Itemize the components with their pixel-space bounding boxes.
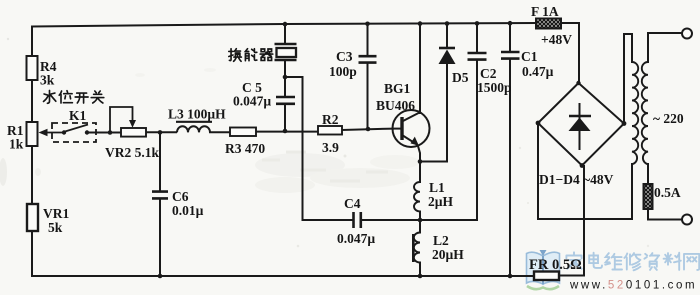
svg-text:1k: 1k	[9, 137, 24, 152]
bridge rectifier D1-D4	[538, 83, 624, 187]
svg-text:C6: C6	[172, 189, 189, 204]
node collector top	[418, 21, 423, 26]
svg-text:VR1: VR1	[43, 206, 69, 221]
capacitor C4	[337, 196, 375, 246]
wire C6 branch	[159, 132, 161, 276]
svg-text:1500p: 1500p	[477, 80, 512, 95]
terminal bottom right	[682, 215, 692, 225]
svg-text:L2: L2	[433, 233, 449, 248]
switch K1 water level switch	[52, 108, 96, 142]
svg-text:0.01µ: 0.01µ	[172, 203, 204, 218]
wire left rail	[31, 27, 33, 277]
watermark CJK text (hand-drawn)	[566, 252, 699, 270]
node C1 ground	[508, 274, 513, 279]
wire bottom rail right of FR to bridge minus	[559, 166, 584, 276]
svg-text:L1: L1	[429, 180, 445, 195]
wire bottom rail	[32, 275, 534, 277]
transformer T secondary winding	[632, 62, 638, 164]
wire emitter down	[418, 146, 420, 162]
resistor R3	[225, 128, 265, 157]
svg-text:BU406: BU406	[376, 98, 415, 113]
svg-text:~ 220: ~ 220	[653, 111, 684, 126]
resistor FR	[529, 257, 582, 280]
node VR2-C6	[158, 130, 163, 135]
svg-text:C1: C1	[521, 49, 538, 64]
svg-text:3k: 3k	[40, 73, 55, 88]
resistor R2	[318, 112, 342, 155]
svg-text:0.047µ: 0.047µ	[337, 231, 375, 246]
svg-text:F 1A: F 1A	[531, 4, 559, 19]
wire C4 right to L1 node	[362, 219, 420, 221]
diode D5	[439, 48, 469, 85]
svg-text:K1: K1	[69, 108, 87, 123]
wire transducer to C4	[285, 77, 352, 220]
svg-text:C3: C3	[336, 49, 353, 64]
svg-text:5k: 5k	[48, 220, 63, 235]
wire transducer branch	[284, 24, 286, 77]
node L2 ground	[418, 274, 423, 279]
scan noise smudges	[0, 38, 649, 248]
node C2 top	[475, 21, 480, 26]
capacitor C2	[468, 53, 512, 95]
svg-text:VR2 5.1k: VR2 5.1k	[105, 145, 159, 160]
svg-text:BG1: BG1	[384, 81, 411, 96]
potentiometer R1	[7, 122, 64, 152]
node C3 base	[366, 127, 371, 132]
wire bridge left vertex to transformer secondary bottom	[538, 123, 632, 219]
svg-text:0.047µ: 0.047µ	[233, 94, 271, 109]
svg-text:D1−D4 ~48V: D1−D4 ~48V	[539, 172, 614, 187]
node bridge right	[622, 121, 627, 126]
capacitor C3	[329, 49, 377, 79]
capacitor C1	[501, 49, 554, 79]
label water level switch (hand-drawn CJK)	[44, 90, 104, 103]
svg-text:C2: C2	[480, 66, 497, 81]
wire C3 branch	[367, 24, 369, 129]
wire D5 cathode to rail	[446, 24, 448, 47]
watermark book icon	[527, 250, 560, 289]
wire collector	[419, 24, 421, 113]
fuse F 1A	[531, 4, 572, 47]
potentiometer VR1	[27, 204, 69, 235]
node emitter	[418, 159, 423, 164]
svg-text:R2: R2	[322, 112, 339, 127]
svg-text:D5: D5	[452, 70, 469, 85]
terminal top right	[682, 29, 692, 39]
svg-text:100p: 100p	[329, 64, 357, 79]
capacitor C6	[152, 189, 204, 218]
wire L1 leads	[419, 162, 421, 221]
node bridge bottom	[580, 163, 585, 168]
svg-text:L3 100µH: L3 100µH	[168, 107, 226, 122]
wire L1 node to C2 bottom	[420, 61, 477, 220]
svg-text:R3 470: R3 470	[225, 141, 265, 156]
node D5 top	[445, 21, 450, 26]
wire top rail	[32, 23, 536, 27]
svg-text:FR 0.5Ω: FR 0.5Ω	[529, 257, 582, 273]
resistor R4	[27, 56, 57, 88]
svg-text:+48V: +48V	[541, 32, 572, 47]
svg-text:C4: C4	[344, 196, 361, 211]
wire C5 branch	[284, 77, 286, 131]
inductor L3	[168, 107, 226, 133]
label transducer (hand-drawn CJK)	[229, 49, 273, 62]
fuse 0.5A	[644, 184, 681, 209]
transducer (piezo)	[275, 44, 297, 60]
inductor L1	[414, 180, 454, 211]
svg-text:0.5A: 0.5A	[654, 185, 681, 200]
wire L2 leads	[419, 220, 421, 276]
svg-text:2µH: 2µH	[428, 194, 454, 209]
wire bridge right vertex U-turn to secondary top	[624, 34, 632, 124]
transistor BG1 BU406	[376, 81, 430, 147]
wire primary bottom to fuse FU2	[647, 164, 649, 184]
capacitor C5	[233, 80, 295, 109]
wire C1 branch	[509, 24, 511, 276]
svg-text:www.520101.com: www.520101.com	[569, 280, 697, 292]
node C1 top	[508, 21, 513, 26]
transformer T primary winding	[642, 62, 684, 164]
node transducer top	[283, 22, 288, 27]
node C3 top	[365, 22, 370, 27]
node K1-VR2	[108, 130, 113, 135]
wire emitter to D5 anode	[420, 64, 447, 162]
wire main bias line	[87, 129, 393, 133]
svg-text:0.47µ: 0.47µ	[522, 64, 554, 79]
wire top rail right to bridge	[561, 23, 579, 84]
svg-text:20µH: 20µH	[432, 247, 464, 262]
potentiometer VR2	[105, 107, 159, 160]
node transducer bottom	[283, 75, 288, 80]
wire fuse FU2 to bottom terminal	[648, 209, 681, 220]
wire C2 top	[476, 24, 478, 52]
node C5 base	[283, 129, 288, 134]
node L1-L2	[418, 218, 423, 223]
svg-text:3.9: 3.9	[322, 140, 339, 155]
node bridge left	[536, 121, 541, 126]
wire primary top to terminal	[648, 33, 681, 62]
inductor L2 with core	[413, 233, 464, 263]
node C6 ground	[158, 274, 163, 279]
node bridge top	[576, 81, 580, 85]
